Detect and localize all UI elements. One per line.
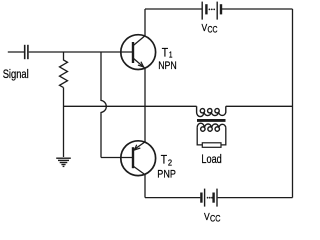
wire emitter bus T1 to T2 — [144, 68, 146, 142]
svg-text:NPN: NPN — [158, 60, 177, 72]
battery B1 (top VCC) — [202, 2, 221, 20]
wire top rail to battery — [145, 8, 202, 10]
wire node A to T2 base with hop over middle wire — [101, 52, 106, 158]
transformer secondary winding — [197, 123, 226, 131]
svg-text:2: 2 — [168, 157, 172, 167]
transistor T1 base bar — [132, 42, 134, 63]
transformer primary winding — [197, 106, 226, 116]
svg-text:Signal: Signal — [3, 67, 29, 81]
wire secondary right leg — [221, 127, 226, 144]
transistor Q2 T2 circle — [121, 141, 156, 176]
wire top rail battery to right — [222, 8, 293, 10]
wire bottom rail battery to right — [218, 197, 293, 199]
wire secondary left leg — [197, 127, 202, 144]
transistor T2 emitter diagonal with PNP arrow — [133, 142, 145, 150]
wire capacitor to T1 base — [29, 51, 133, 53]
wire T2 collector down — [144, 175, 146, 198]
transistor T1 collector diagonal — [133, 36, 145, 46]
transformer core — [197, 119, 226, 122]
load resistor box — [202, 143, 221, 148]
ground — [56, 158, 71, 166]
svg-text:Load: Load — [201, 152, 221, 166]
svg-text:V: V — [202, 22, 208, 34]
wire middle rail right — [226, 105, 293, 107]
wire input left — [8, 51, 24, 53]
svg-text:CC: CC — [208, 25, 218, 35]
transistor Q1 T1 circle — [121, 35, 156, 70]
wire T2 base — [101, 157, 133, 159]
capacitor C1 — [25, 45, 28, 59]
wire bottom rail to battery — [145, 197, 200, 199]
wire resistor to ground — [63, 88, 65, 157]
transistor T1 emitter diagonal with NPN arrow — [133, 58, 145, 68]
svg-text:PNP: PNP — [157, 169, 176, 181]
wire T1 collector up — [144, 9, 146, 36]
battery B2 dots — [207, 197, 213, 199]
wire right rail — [292, 9, 294, 198]
wire middle rail left (emitters to transformer) — [64, 105, 197, 107]
resistor R1 — [60, 52, 68, 88]
svg-text:1: 1 — [169, 50, 173, 60]
svg-text:T: T — [161, 153, 168, 167]
battery B2 (bottom VCC) — [201, 189, 217, 207]
svg-text:T: T — [162, 46, 169, 60]
transistor T2 base bar — [132, 147, 134, 168]
svg-text:V: V — [204, 211, 210, 223]
battery B1 dots — [209, 9, 216, 11]
svg-text:CC: CC — [210, 214, 221, 224]
transistor T2 collector diagonal — [133, 166, 145, 175]
